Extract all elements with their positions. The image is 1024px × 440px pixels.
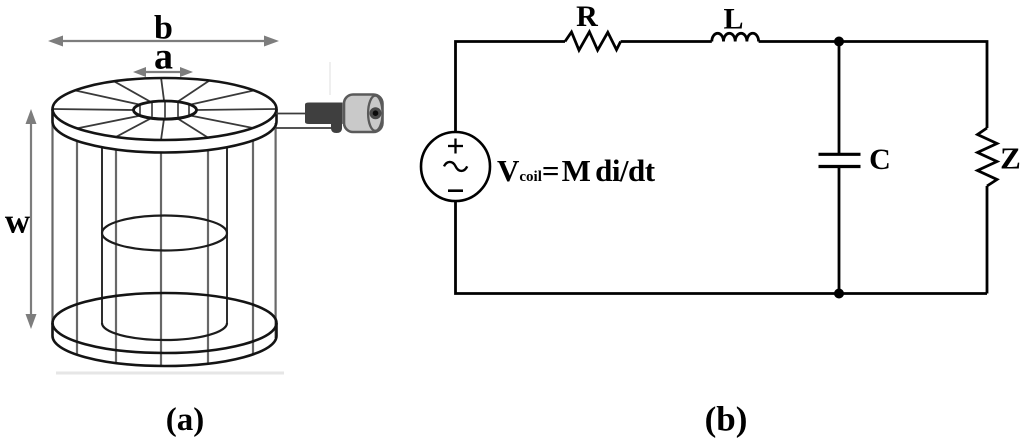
capacitor branch upper wire [838,42,841,155]
svg-text:R: R [576,0,598,33]
wire L to top-right corner [759,42,987,129]
inner cylinder side walls [102,147,227,323]
svg-text:C: C [869,143,891,176]
wire R to L [621,40,712,43]
source minus sign [448,189,463,192]
barrel end face [368,96,382,131]
svg-text:Vcoil=M di/dt: Vcoil=M di/dt [497,153,656,188]
wire source top [456,42,566,133]
center hole inner-wall hatches [140,101,189,117]
dimension arrow a [133,67,193,77]
top disc radial spokes [53,78,277,140]
center pin [370,107,382,119]
svg-text:(b): (b) [705,400,748,439]
BNC connector barrel (light) [344,95,383,133]
capacitor C plates [819,154,861,166]
svg-text:w: w [5,202,31,241]
node top junction [834,37,844,47]
inductor L [712,33,759,41]
svg-text:L: L [723,3,743,36]
inner cylinder [102,216,227,341]
capacitor branch lower wire [838,167,841,294]
wire Z to bottom-right corner [986,186,989,294]
svg-text:a: a [154,36,173,78]
bottom disc [53,293,277,366]
bottom wire [456,201,988,294]
shadow under bottom disc [56,372,284,375]
voltage source V_coil [421,132,490,201]
BNC connector body (dark) [305,103,343,125]
source sine symbol [444,162,467,171]
node bottom junction [834,289,844,299]
faint cable above connector [329,62,331,95]
load impedance Z [978,128,998,186]
center hole [134,101,197,120]
connector lead wires [276,114,340,129]
svg-text:Z: Z [1000,141,1021,176]
dimension arrow w [26,109,37,329]
svg-text:(a): (a) [166,402,204,438]
coil cage vertical bars [53,122,276,366]
top disc (washer) [53,78,277,152]
connector strain tab [331,120,342,133]
source plus sign [448,139,463,154]
dimension arrow b [48,36,279,47]
resistor R [565,32,621,50]
